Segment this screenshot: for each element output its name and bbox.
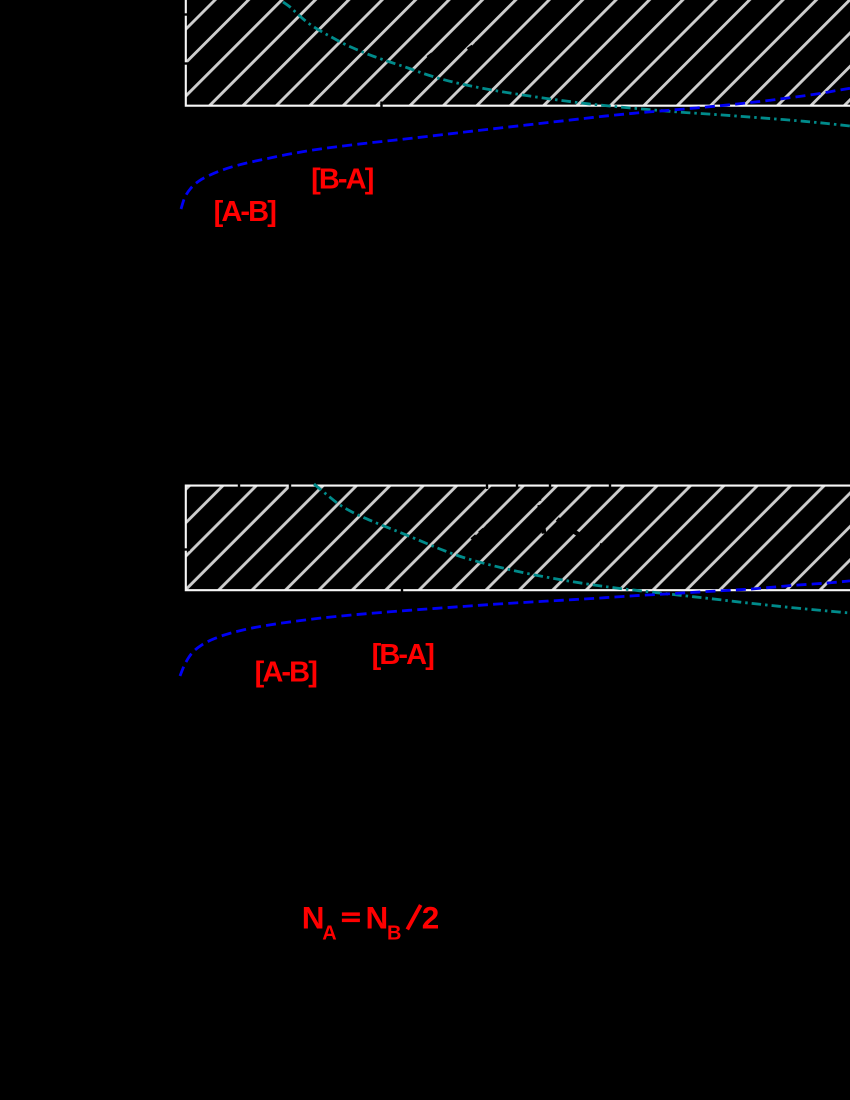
svg-text:[A-B]: [A-B] <box>255 656 318 688</box>
svg-text:N: N <box>366 900 389 936</box>
red annotation N_A = N_B / 2 <box>302 899 440 944</box>
svg-text:A: A <box>322 923 336 945</box>
svg-text:[B-A]: [B-A] <box>311 163 374 195</box>
hatched band panel 1 <box>186 0 850 106</box>
black text cutouts panel 2 <box>472 494 602 546</box>
black text cutouts panel 1 <box>428 28 850 62</box>
band border panel 2 <box>186 486 850 591</box>
teal curve panel 1 <box>283 2 850 126</box>
band border panel 1 <box>186 0 850 106</box>
black ticks panel 2 <box>183 482 610 595</box>
svg-text:[B-A]: [B-A] <box>372 639 435 671</box>
teal curve panel 2 <box>314 484 850 613</box>
hatched band panel 2 <box>186 486 850 591</box>
svg-text:B: B <box>387 923 401 945</box>
blue curve panel 1 <box>181 88 850 209</box>
black ticks panel 1 <box>183 15 382 111</box>
svg-text:[A-B]: [A-B] <box>214 196 277 228</box>
blue curve panel 2 <box>180 581 850 676</box>
svg-text:N: N <box>302 899 325 935</box>
svg-text:2: 2 <box>422 899 440 935</box>
